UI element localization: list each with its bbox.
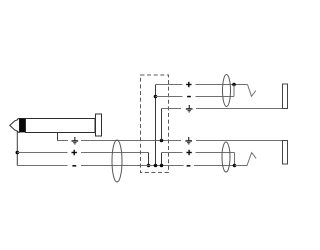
wire: top minus rise to plus <box>233 85 235 97</box>
wire: top tip contact zigzag <box>248 85 256 97</box>
wire: ground row segment 2 <box>81 140 181 142</box>
ground symbol G3 (top right) <box>186 105 193 112</box>
sleeve bar (bottom jack) <box>283 141 288 165</box>
wire: sleeve drop to ground row <box>57 132 59 140</box>
junction dot B top minus <box>154 95 158 99</box>
wire: bottom plus row right segment 1 <box>162 152 183 154</box>
junction dot A <box>147 164 151 168</box>
jack plug P1 end cap <box>96 114 102 136</box>
jack plug P1 insulator band <box>19 118 25 132</box>
wire: top minus row segment 2 <box>196 96 235 98</box>
wire: ground row segment 3 to sleeve bar <box>196 140 288 142</box>
junction dot top join <box>232 83 236 87</box>
wire: top ground row segment 1 <box>162 108 182 110</box>
label minus L2 <box>72 165 76 167</box>
label minus L6 (bottom) <box>187 165 191 167</box>
cable ellipse E2 (top cable) <box>223 75 231 107</box>
ground symbol G1 <box>72 137 79 144</box>
junction dot bottom join <box>233 164 237 168</box>
wire: bottom plus row right segment 2 <box>196 152 235 154</box>
wire: plus row segment 1 <box>17 152 67 154</box>
label plus L1 <box>72 150 77 155</box>
junction dot: tip drop x plus row <box>15 151 19 155</box>
wire: tip drop to + and - rows <box>16 131 18 165</box>
wire: top plus row segment 1 <box>156 84 183 86</box>
wire: bottom plus drop to minus <box>234 153 236 166</box>
junction dot D <box>160 164 164 168</box>
splitter box (dashed) <box>141 75 169 173</box>
jack plug P1 tip <box>10 119 20 133</box>
wire: vertical B (signal up to top connector) <box>155 85 157 166</box>
wire: bottom tip contact zigzag <box>235 153 257 166</box>
sleeve bar (top jack) <box>283 84 288 109</box>
ground symbol G2 (bottom right) <box>185 137 192 144</box>
wire: top minus row segment 1 <box>156 96 183 98</box>
wire: plus row segment 2 <box>81 152 149 154</box>
jack plug P1 body (sleeve) <box>26 119 96 133</box>
wire: top ground row segment 2 <box>196 108 288 110</box>
wire: ground row segment 1 <box>57 140 68 142</box>
wire: minus row segment 2 <box>81 165 184 167</box>
label minus L4 (top) <box>187 96 191 98</box>
wire: minus row segment 3 <box>194 165 235 167</box>
junction dot: ground x vertical C <box>160 139 164 143</box>
label plus L5 (bottom) <box>186 150 191 155</box>
wire: vertical D (bottom plus takeoff) <box>161 153 163 166</box>
junction dot B minus row <box>154 164 158 168</box>
cable ellipse E1 (left cable) <box>112 140 122 182</box>
wire: vertical A (plus to minus join, left) <box>148 153 150 166</box>
wire: vertical C (top ground down to main ground) <box>161 109 163 141</box>
label plus L3 (top) <box>186 82 191 87</box>
wire: minus row segment 1 <box>17 165 67 167</box>
wire: top plus row segment 2 <box>196 84 248 86</box>
cable ellipse E3 (bottom cable) <box>222 142 230 172</box>
